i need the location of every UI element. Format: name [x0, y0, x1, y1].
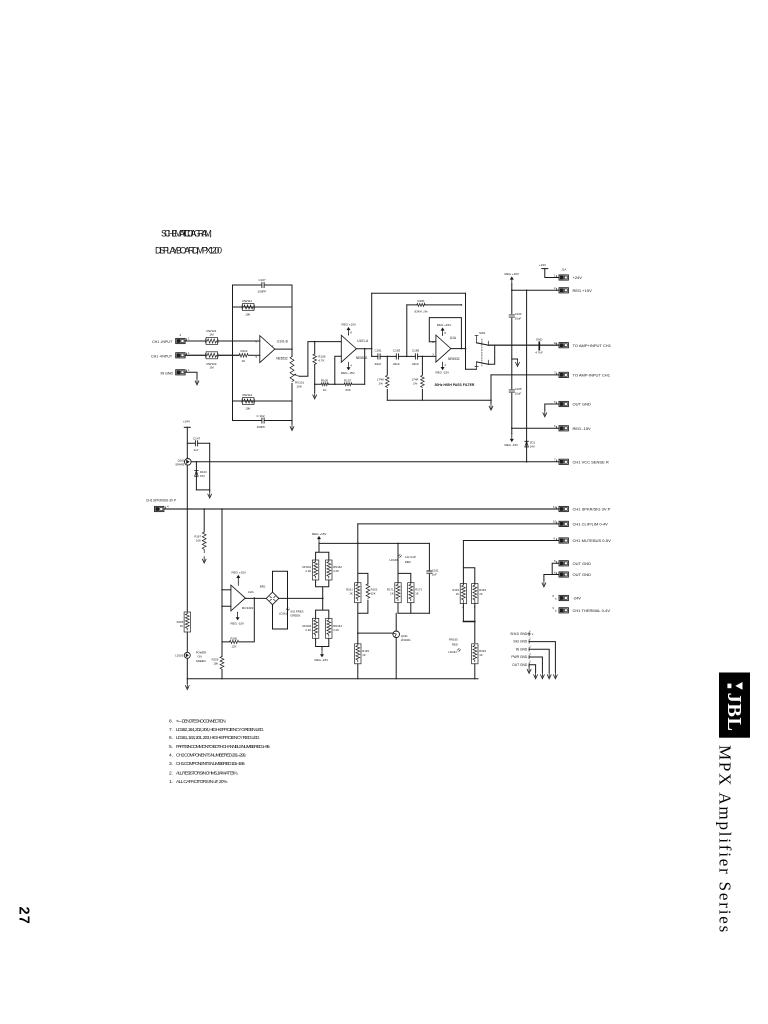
svg-text:4: 4: [444, 363, 446, 367]
svg-text:C105: C105: [515, 387, 522, 391]
JBL logo block: [719, 673, 750, 738]
svg-text:RW114: RW114: [243, 393, 253, 397]
svg-text:1M: 1M: [210, 333, 215, 337]
wire R112 to U101B non-inverting input: [249, 354, 260, 356]
svg-text:8: 8: [350, 330, 352, 334]
resistor R162 62K zigzag: [366, 584, 378, 598]
svg-text:4: 4: [167, 505, 169, 509]
connector CH1 SPKR/SIG right: [553, 505, 611, 512]
svg-text:+24V: +24V: [183, 420, 190, 424]
wire bottom rail of stage 2: [315, 383, 365, 385]
svg-text:7: 7: [554, 458, 556, 462]
power REG+15V at U2A: [232, 571, 246, 586]
svg-text:CH CLIP: CH CLIP: [405, 555, 416, 559]
wire feedback top edge: [233, 284, 293, 286]
wire CLIP bus drop: [357, 524, 359, 544]
svg-text:RED: RED: [452, 642, 458, 646]
svg-text:C107: C107: [259, 278, 267, 282]
resistor R185 174K to ground rail: [412, 356, 425, 401]
svg-text:1K: 1K: [180, 624, 184, 628]
capacitor C105 10uF on -15 rail: [509, 387, 522, 395]
wire signal line with caps: [372, 355, 436, 357]
resistor R107 536: [344, 378, 352, 391]
connector J1 pin IN GND: [161, 368, 191, 375]
svg-text:SCHEMATIC DIAGRAM,: SCHEMATIC DIAGRAM,: [161, 228, 212, 238]
svg-text:×: ×: [555, 597, 557, 601]
connector OUT GND lower A: [554, 559, 591, 566]
power REG-15V at U101A: [341, 362, 355, 375]
wire HPF right edge: [465, 293, 467, 369]
svg-text:5: 5: [554, 400, 556, 404]
capacitor C185 .33uF: [411, 348, 420, 366]
wire U2A inverting input: [222, 589, 231, 591]
svg-text:CH1 VCC SENSE R: CH1 VCC SENSE R: [573, 459, 609, 464]
svg-text:6.: 6.: [169, 735, 173, 741]
svg-text:REG.-15V: REG.-15V: [341, 371, 355, 375]
svg-text:1: 1: [188, 368, 190, 372]
wire -input to R101: [185, 340, 206, 342]
svg-text:4: 4: [350, 363, 352, 367]
svg-text:3.: 3.: [169, 761, 173, 767]
svg-text:9: 9: [554, 536, 556, 540]
svg-text:REG.+15V: REG.+15V: [505, 272, 519, 276]
wire CH1 SPKR/SIG bus: [164, 508, 559, 510]
potentiometer RV101 10K: [290, 357, 304, 389]
wire node to RN163/164 top tie: [316, 598, 329, 618]
svg-text:+24V: +24V: [539, 263, 546, 267]
resistor R181 63K4 1% feedback loop: [406, 299, 461, 357]
svg-text:IN GND: IN GND: [161, 371, 174, 375]
connector -24V with NC mark: [553, 594, 582, 601]
svg-text:12K: 12K: [232, 645, 237, 649]
node PWR GND: [511, 653, 542, 672]
wire U181A feedback rect to inverting input: [429, 318, 461, 349]
power +24V terminal left: [183, 420, 190, 459]
svg-text:REG.+15V: REG.+15V: [573, 288, 593, 293]
svg-text:1K: 1K: [479, 653, 483, 657]
connector CH1 MUTEBUS: [554, 536, 612, 543]
node feedback right rail: [291, 285, 293, 421]
svg-text:REG.+15V: REG.+15V: [437, 323, 451, 327]
ground below R167: [202, 557, 206, 564]
svg-text:1K: 1K: [349, 591, 353, 595]
wire R106 to bottom rail: [314, 365, 316, 385]
svg-text:6: 6: [554, 570, 556, 574]
svg-text:4.: 4.: [169, 753, 173, 759]
op-amp U101B NE5532: [256, 336, 288, 363]
diode D103 15V branch: [195, 461, 208, 490]
op-amp U181A NE5532: [432, 335, 460, 362]
wire bottom supply rail: [187, 678, 478, 680]
wire R194 to rail: [474, 664, 476, 679]
node OUT GND cluster: [512, 661, 535, 673]
svg-text:BR1: BR1: [260, 584, 266, 588]
wire OUT GND pair to ground: [544, 563, 559, 580]
wire CLIP/LIM bus: [358, 523, 559, 525]
svg-text:CH1 -INPUT: CH1 -INPUT: [152, 340, 173, 344]
wire RN161/162 top feed: [316, 543, 329, 559]
svg-text:×: ×: [532, 632, 534, 636]
wire REG+15V rail down: [511, 290, 513, 434]
svg-text:OUT GND: OUT GND: [573, 561, 591, 566]
svg-text:R108: R108: [321, 378, 329, 382]
svg-text:2.2K: 2.2K: [305, 628, 311, 632]
wire U101A output: [356, 348, 371, 350]
switch SW1 section B: [475, 360, 488, 369]
svg-text:REG.+15V: REG.+15V: [342, 322, 356, 326]
svg-text:DISPLAY BOARD, MPX1200: DISPLAY BOARD, MPX1200: [155, 245, 222, 255]
svg-text:4.7K: 4.7K: [318, 359, 324, 363]
wire U2A output to diamond: [245, 597, 266, 599]
resistor R103 1M: [206, 352, 218, 370]
resistor R161 1K boxed: [346, 583, 361, 603]
ground hook on rail: [512, 358, 518, 361]
capacitor C103 10uF on +15 rail: [509, 312, 522, 320]
transistor Q161: [393, 631, 411, 642]
svg-text:1%: 1%: [379, 382, 384, 386]
wire IN GND to ground: [185, 372, 197, 378]
connector REG.-15V: [554, 424, 591, 431]
svg-text:.33uF: .33uF: [374, 362, 382, 366]
wire U181A output: [451, 348, 466, 350]
power REG-15V rail bottom: [505, 434, 519, 447]
power REG-15V at U2A: [231, 612, 245, 625]
svg-text:1.: 1.: [169, 779, 173, 785]
svg-text:C147: C147: [193, 436, 201, 440]
svg-text:3: 3: [554, 371, 556, 375]
svg-text:R181: R181: [418, 299, 426, 303]
wire R103 to R112: [218, 354, 239, 356]
ground cluster arrows: [527, 667, 531, 674]
node bar right loop: [463, 621, 474, 623]
wire branch bottom tie to ground: [196, 490, 209, 492]
svg-text:RW111: RW111: [243, 299, 253, 303]
svg-text:C 102: C 102: [257, 414, 265, 418]
svg-text:10K: 10K: [196, 539, 201, 543]
connector CH1 CLIP/LIM: [553, 520, 608, 527]
svg-text:62K: 62K: [371, 591, 376, 595]
svg-text:CH1 SPKR/SIG 3V P: CH1 SPKR/SIG 3V P: [146, 498, 176, 502]
svg-text:2: 2: [462, 605, 464, 609]
svg-text:R160: R160: [231, 636, 238, 640]
svg-text:SHLD GND: SHLD GND: [510, 632, 528, 636]
connector CH1 SPKR/SIG left: [146, 498, 176, 511]
svg-text:REG.+15V: REG.+15V: [312, 532, 326, 536]
wire diamond to node: [279, 597, 323, 599]
wire +input to R103: [185, 354, 206, 356]
svg-text:1M: 1M: [210, 366, 215, 370]
wire U181A output down to switch B: [466, 349, 477, 370]
wire R165 to LED: [186, 632, 188, 652]
resistor RN164 2.2K: [326, 618, 343, 638]
svg-text:1K: 1K: [362, 653, 366, 657]
svg-text:15V: 15V: [200, 474, 205, 478]
svg-text:SPARE: SPARE: [175, 462, 184, 466]
svg-text:REG.-15V: REG.-15V: [436, 370, 450, 374]
svg-text:3: 3: [529, 645, 531, 648]
wire LED to bottom rail: [186, 658, 188, 679]
capacitor C183 .33uF: [392, 348, 401, 366]
svg-text:3: 3: [474, 605, 476, 609]
LED bridge BR1 diamond: [260, 584, 279, 604]
svg-text:REG.-15V: REG.-15V: [231, 621, 245, 625]
wire MUTEBUS drop: [462, 541, 464, 568]
resistor R112 1K: [239, 349, 248, 363]
svg-text:6: 6: [256, 340, 258, 344]
op-amp U101A NE5532: [341, 335, 369, 362]
ground at rail left end: [186, 679, 188, 683]
resistor R191 1K boxed: [452, 584, 466, 609]
ground stage2: [314, 384, 316, 392]
svg-text:REG.-15V: REG.-15V: [505, 443, 519, 447]
power REG+15V rail top: [505, 272, 519, 285]
svg-text:OUT GND: OUT GND: [573, 572, 591, 577]
wire centre loop (R171/R173): [398, 543, 429, 613]
svg-text:CH1 CLIP/LIM 0-4V: CH1 CLIP/LIM 0-4V: [573, 522, 609, 527]
svg-text:10: 10: [553, 520, 557, 524]
resistor R108 1K: [321, 378, 329, 391]
svg-text:1: 1: [554, 273, 556, 277]
svg-text:JBL: JBL: [723, 693, 745, 732]
svg-text:OUT GND: OUT GND: [512, 663, 528, 667]
label LD161 SIG PRES GREEN: [279, 608, 304, 618]
svg-text:10K: 10K: [297, 384, 302, 388]
notes list: [169, 718, 270, 785]
switch SW1 gang dashed link: [481, 339, 483, 366]
svg-text:NE5532: NE5532: [356, 356, 368, 360]
svg-text:1: 1: [188, 337, 190, 341]
svg-text:3: 3: [432, 352, 434, 356]
svg-text:5: 5: [554, 559, 556, 563]
svg-text:TO AMP+INPUT CH1: TO AMP+INPUT CH1: [573, 343, 612, 348]
wire down from HPF ground rail corner: [490, 375, 492, 404]
svg-text:ALL RESISTORS IN OHMS, 1/4 WAT: ALL RESISTORS IN OHMS, 1/4 WATT, 5%.: [176, 770, 238, 776]
wire HPF left edge: [371, 293, 373, 348]
ground at HPF rail corner: [489, 404, 493, 411]
capacitor C147 4u7 branch: [187, 436, 209, 452]
wire OUT GND hook to ground: [545, 404, 559, 410]
svg-text:NE5532: NE5532: [448, 357, 460, 361]
node IN GND: [516, 645, 549, 672]
wire REG+15V to connector: [512, 284, 559, 290]
svg-text:100PF: 100PF: [258, 289, 267, 293]
svg-text:×: ×: [555, 609, 557, 613]
node SHLD GND with NC: [510, 630, 533, 636]
svg-text:11: 11: [553, 505, 556, 509]
capacitor C181 .33uF: [374, 348, 383, 366]
svg-text:MPX Amplifier Series: MPX Amplifier Series: [716, 745, 735, 934]
svg-text:+24V: +24V: [573, 275, 583, 280]
wire RN163/164 bottom to REG-15V: [316, 638, 329, 650]
svg-text:PWR GND: PWR GND: [511, 655, 528, 659]
svg-text:.33uF: .33uF: [411, 362, 419, 366]
svg-text:R112: R112: [241, 349, 248, 353]
svg-text:C183: C183: [393, 348, 401, 352]
resistor RN161 2.2K: [302, 560, 318, 580]
svg-text:1K: 1K: [479, 592, 483, 596]
svg-text:100PF: 100PF: [257, 425, 266, 429]
svg-text:2.2K: 2.2K: [333, 628, 339, 632]
resistor R160 12K feedback: [230, 636, 239, 648]
resistor R171 1K boxed: [387, 583, 401, 603]
svg-text:LD163: LD163: [390, 558, 399, 562]
svg-text:LD162, 164, 202, 204, HIGH-EFF: LD162, 164, 202, 204, HIGH-EFFICIENCY GR…: [176, 727, 264, 733]
power REG+15V at LED network: [312, 532, 326, 544]
wire feedback second edge: [233, 306, 293, 308]
svg-text:4.7uF: 4.7uF: [535, 351, 543, 355]
svg-text:7: 7: [272, 344, 274, 348]
svg-text:1%: 1%: [413, 382, 418, 386]
svg-text:2.: 2.: [169, 770, 173, 776]
svg-text:1K: 1K: [323, 388, 327, 392]
svg-text:10uF: 10uF: [515, 392, 522, 396]
connector TO AMP+INPUT CH1: [554, 341, 612, 348]
connector CH1 THERMAL with NC mark: [553, 606, 611, 613]
ground below feedback rail: [291, 421, 293, 425]
svg-text:CH1 MUTEBUS 0-5V: CH1 MUTEBUS 0-5V: [573, 538, 612, 543]
svg-text:1K: 1K: [242, 359, 246, 363]
resistor R183 174K to ground rail: [377, 356, 389, 401]
svg-text:REG.-15V: REG.-15V: [315, 658, 329, 662]
resistor RN162 2.2K: [326, 560, 343, 580]
svg-text:8.: 8.: [169, 718, 173, 724]
svg-text:2N4401: 2N4401: [401, 638, 411, 642]
svg-text:U1A: U1A: [450, 336, 457, 340]
wire HPF top edge: [372, 292, 466, 294]
wire feedback bottom edge: [233, 420, 293, 422]
wire switch A to connector TO AMP+INPUT CH1: [488, 344, 559, 346]
svg-text:27: 27: [16, 907, 32, 926]
svg-text:MC3403: MC3403: [242, 606, 254, 610]
connector OUT GND upper: [554, 400, 591, 407]
svg-text:LD165: LD165: [175, 654, 184, 658]
connector J1 pin CH1 -INPUT: [152, 333, 190, 344]
wire feedback from output down to rail: [364, 349, 366, 385]
connector OUT GND lower B: [554, 570, 591, 577]
capacitor C109 4.7uF on output wire: [535, 338, 543, 355]
LED LD165 POWER ON GREEN: [175, 650, 206, 662]
node feedback left rail: [232, 285, 234, 421]
connector CH1 VCC SENSE R: [554, 458, 609, 465]
svg-text:RED: RED: [405, 560, 411, 564]
wire RN161/162 bottom tie to node: [316, 580, 329, 598]
wire left column below Q101: [186, 465, 188, 611]
svg-text:1uF: 1uF: [432, 573, 437, 577]
wire drop from SPKR bus x222: [221, 509, 223, 657]
power REG-15V at U181A: [436, 362, 450, 374]
label LD163 CH CLIP RED: [390, 554, 416, 563]
svg-text:12: 12: [554, 341, 558, 345]
svg-text:U101-A: U101-A: [357, 339, 369, 343]
svg-text:2: 2: [180, 333, 182, 337]
connector REG.+15V: [554, 286, 592, 293]
wire diamond bypass loop: [273, 571, 288, 629]
svg-text:REG.+15V: REG.+15V: [232, 571, 246, 575]
wire C147 down leg: [209, 443, 211, 490]
svg-text:REG.-15V: REG.-15V: [573, 426, 592, 431]
wire HPF bottom ground rail: [387, 399, 491, 401]
node rail x527 from +15V wire down to VCC sense bus: [526, 290, 528, 462]
svg-text:30Hz HIGH PASS FILTER: 30Hz HIGH PASS FILTER: [435, 383, 475, 387]
node non-inverting input U101A: [335, 356, 342, 384]
wire CH1 VCC SENSE bus: [191, 461, 559, 463]
wire Q161 collector / emitter: [395, 613, 397, 679]
svg-text:5: 5: [529, 661, 531, 664]
svg-text:CH1 SPKR/SIG 3V P: CH1 SPKR/SIG 3V P: [573, 507, 611, 512]
svg-text:×— DENOTES NO CONNECTION.: ×— DENOTES NO CONNECTION.: [176, 718, 226, 724]
resistor R173 1K boxed: [408, 583, 423, 603]
svg-text:-24V: -24V: [573, 596, 582, 601]
svg-text:10K: 10K: [245, 313, 250, 317]
capacitor C102 100PF: [257, 414, 266, 429]
svg-text:CH1 THERMAL 0-4V: CH1 THERMAL 0-4V: [573, 608, 611, 613]
switch SW1 section A: [475, 331, 488, 345]
connector TO AMP-INPUT CH1: [554, 371, 611, 378]
svg-text:U2A: U2A: [248, 590, 254, 594]
svg-text:4: 4: [529, 653, 531, 656]
power REG+15V at U101A: [342, 322, 356, 335]
svg-text:GND: GND: [536, 338, 544, 342]
svg-text:5.: 5.: [169, 744, 173, 750]
svg-text:J1A: J1A: [562, 268, 567, 272]
capacitor C107 100PF: [258, 278, 267, 293]
zener D105 24V on rail: [525, 441, 536, 449]
svg-text:10K: 10K: [245, 407, 250, 411]
svg-text:6: 6: [554, 424, 556, 428]
label RN165 RED LD164: [449, 638, 461, 654]
node SIG GND: [513, 638, 555, 673]
svg-text:1K: 1K: [456, 592, 460, 596]
svg-text:10uF: 10uF: [515, 317, 522, 321]
resistor R193 1K boxed: [472, 584, 487, 609]
svg-text:OUT GND: OUT GND: [573, 402, 591, 407]
wire HPF input jog: [371, 349, 373, 357]
wire R159 to rail: [221, 670, 223, 679]
power +24V terminal top: [539, 263, 559, 278]
svg-text:GREEN: GREEN: [196, 659, 206, 663]
wire REG-15V to connector: [512, 427, 559, 429]
resistor R165 1K boxed: [177, 612, 191, 632]
svg-text:LD161, 163, 201, 203, HIGH-EFF: LD161, 163, 201, 203, HIGH-EFFICIENCY RE…: [176, 735, 260, 741]
svg-text:1K: 1K: [390, 591, 394, 595]
svg-text:2.2K: 2.2K: [333, 569, 339, 573]
svg-text:NE5532: NE5532: [276, 356, 288, 360]
svg-text:8: 8: [444, 331, 446, 335]
wire switch B loop to output: [488, 345, 494, 364]
svg-text:15K: 15K: [213, 662, 218, 666]
resistor R101 1M: [206, 329, 218, 345]
svg-text:LD161: LD161: [279, 612, 288, 616]
power REG-15V below RN network: [315, 649, 329, 662]
power REG+15V at U181A: [437, 323, 451, 335]
resistor R106 4.7K: [313, 342, 326, 365]
wire U101B output to feedback rail: [275, 348, 292, 350]
wire R101 to U101B inverting input: [218, 340, 260, 342]
svg-text:CH 2 COMPONENTS NUMBERED 201–2: CH 2 COMPONENTS NUMBERED 201–299.: [176, 753, 246, 759]
wire TO AMP-INPUT CH1: [491, 374, 559, 376]
svg-text:R107: R107: [344, 378, 352, 382]
svg-text:63K4, 1%: 63K4, 1%: [415, 310, 428, 314]
svg-text:LD164: LD164: [449, 650, 458, 654]
svg-text:U101-B: U101-B: [277, 340, 288, 344]
wire right loop lower leg: [474, 622, 476, 643]
wire right loop (R191/R193): [463, 568, 474, 622]
svg-text:C185: C185: [412, 348, 420, 352]
resistor R159 15K: [212, 657, 224, 670]
svg-text:2.2K: 2.2K: [305, 569, 311, 573]
svg-text:C181: C181: [375, 348, 383, 352]
svg-text:CH1 +INPUT: CH1 +INPUT: [151, 354, 173, 358]
